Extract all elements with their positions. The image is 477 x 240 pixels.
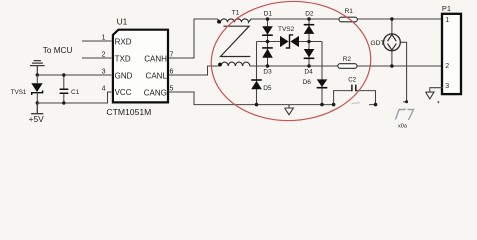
svg-text:7: 7 (170, 51, 174, 58)
capacitor C2 (334, 77, 376, 105)
winding bottom (221, 62, 250, 66)
wire GND rail to pin3 (37, 74, 111, 76)
svg-text:CANG: CANG (144, 88, 167, 97)
svg-text:+5V: +5V (29, 114, 45, 124)
svg-text:C1: C1 (71, 89, 80, 96)
node dot GDT bottom (390, 64, 394, 68)
op-amp U1 CTM1051M body (106, 16, 168, 117)
svg-text:CANH: CANH (144, 55, 167, 64)
svg-text:TVS1: TVS1 (11, 89, 27, 96)
svg-text:4: 4 (102, 85, 106, 92)
node dot GDT earth lead end (405, 100, 408, 103)
+5V power bar (29, 103, 45, 124)
svg-text:VCC: VCC (115, 88, 132, 97)
node dot CANL rail right column (307, 64, 311, 68)
node top winding polarity dot (217, 20, 221, 24)
svg-text:D2: D2 (305, 11, 314, 18)
svg-text:U1: U1 (117, 16, 128, 26)
node GND junction (36, 73, 39, 76)
wire RXD to MCU (82, 40, 112, 42)
wire D2 D4 column (308, 19, 310, 66)
svg-text:1: 1 (445, 17, 449, 24)
watermark remnant dash (352, 103, 361, 104)
node bottom winding polarity dot (218, 63, 222, 67)
svg-text:CTM1051M: CTM1051M (106, 107, 151, 117)
node C1 bottom (62, 101, 65, 104)
svg-text:To MCU: To MCU (43, 46, 73, 55)
svg-text:CANL: CANL (146, 72, 168, 81)
node C1 top (62, 73, 65, 76)
wire +5V rail to VCC pin4 (37, 92, 111, 103)
svg-text:R2: R2 (343, 56, 352, 63)
node dot TVS row right (307, 40, 311, 44)
wire CANH (169, 19, 218, 58)
node dot TVS row left (266, 40, 270, 44)
winding top (218, 19, 252, 22)
svg-text:x0a: x0a (398, 123, 408, 129)
svg-text:D4: D4 (304, 68, 313, 75)
ground (earth at P1) (426, 92, 434, 99)
diode D6 (303, 79, 328, 88)
ground (signal, mid bottom) (285, 105, 294, 115)
TVS2 bidirectional (278, 26, 299, 48)
svg-text:1: 1 (102, 34, 106, 41)
node dot C2 left leg (332, 103, 336, 107)
svg-text:D1: D1 (264, 11, 273, 18)
svg-text:5: 5 (170, 85, 174, 92)
node dot CANL rail left column (266, 64, 270, 68)
wire CANL (169, 66, 222, 75)
diode D4 (304, 49, 315, 75)
diode D5 (251, 80, 272, 92)
wire TXD to MCU (82, 57, 112, 59)
svg-text:RXD: RXD (115, 37, 132, 46)
diode D2 (304, 11, 315, 34)
node dot top rail D2 (307, 17, 311, 21)
svg-text:6: 6 (170, 68, 174, 75)
red highlight ellipse (208, 0, 374, 125)
wire P1 pin3 to earth (430, 88, 443, 92)
connector P1 (442, 4, 461, 94)
node dot C2 right leg (374, 103, 378, 107)
wire top rail right of R1 to P1 pin1 (357, 18, 442, 20)
svg-text:2: 2 (445, 63, 449, 70)
svg-text:C2: C2 (348, 77, 356, 84)
svg-text:GND: GND (115, 71, 133, 80)
watermark remnant dark speck (437, 101, 439, 103)
svg-text:2: 2 (102, 51, 106, 58)
svg-text:R1: R1 (345, 8, 354, 15)
node +5V junction (36, 101, 39, 104)
diode D3 (262, 48, 273, 76)
core (Z) (221, 26, 251, 56)
GDT gas discharge tube (370, 19, 406, 102)
resistor R2 (338, 56, 357, 69)
wire D5 branch column (256, 42, 258, 105)
wire CANL rail right of R2 to P1 pin2 (357, 65, 442, 67)
diode D1 (262, 11, 273, 36)
ground (earth symbol, top left) (30, 61, 45, 75)
capacitor C1 (60, 75, 80, 103)
TVS1 (11, 75, 43, 103)
svg-text:D3: D3 (263, 68, 272, 75)
svg-text:D5: D5 (263, 85, 272, 92)
resistor R1 (339, 8, 357, 22)
transformer T1 common-mode choke (217, 9, 251, 66)
node dot GDT top (390, 17, 394, 21)
node dot bottom rail D5 (255, 103, 259, 107)
node dot bottom rail D6 (320, 103, 324, 107)
svg-text:TXD: TXD (115, 54, 131, 63)
svg-text:P1: P1 (442, 4, 451, 13)
node dot top rail D1 (266, 17, 270, 21)
svg-text:GDT: GDT (370, 40, 384, 47)
watermark remnant pink stroke (330, 108, 339, 112)
svg-text:D6: D6 (303, 79, 312, 86)
watermark remnant glyphs (396, 109, 414, 121)
wire CANG (169, 92, 334, 105)
wire D6 branch column (321, 42, 323, 105)
wire CANL rail (250, 65, 338, 67)
wire TVS row (257, 41, 323, 43)
wire D1 D3 column (267, 19, 269, 66)
svg-text:3: 3 (445, 83, 449, 90)
svg-text:3: 3 (102, 68, 106, 75)
svg-text:TVS2: TVS2 (278, 26, 295, 33)
svg-text:T1: T1 (232, 9, 240, 16)
wire CANH top rail (251, 18, 339, 20)
